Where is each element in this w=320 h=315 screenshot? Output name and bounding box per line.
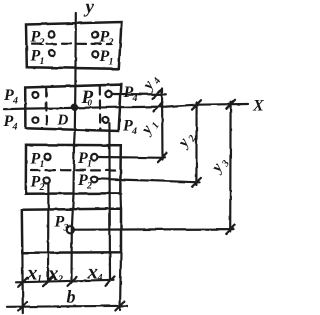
dimension line b (7, 306, 127, 307)
hole P3 (67, 226, 74, 233)
svg-text:X: X (252, 98, 264, 115)
hole P1 lower-left (45, 154, 51, 160)
hole P2 top-right (92, 32, 98, 38)
tick y4 top (153, 90, 162, 99)
extension line right column x4 (108, 123, 111, 281)
svg-text:4: 4 (12, 96, 18, 107)
hole P1 mid-right (92, 51, 98, 57)
x-axis (4, 104, 248, 109)
svg-text:2: 2 (86, 181, 92, 192)
top plate rectangle (26, 22, 122, 69)
svg-text:4: 4 (131, 126, 137, 137)
tick y2 bottom (192, 178, 201, 187)
label y1 rotated (138, 116, 162, 139)
hole P2 top-left (49, 32, 55, 38)
label y4 rotated (139, 72, 163, 95)
svg-text:1: 1 (37, 274, 42, 285)
hole P1 mid-left (49, 50, 55, 56)
middle plate dashed vertical left (45, 89, 47, 128)
hole P4 row1 left (32, 92, 38, 98)
tick x-dim 3 (68, 277, 77, 286)
svg-text:4: 4 (132, 93, 138, 104)
svg-text:2: 2 (57, 274, 63, 285)
svg-text:1: 1 (109, 57, 114, 68)
svg-text:1: 1 (40, 56, 45, 67)
connector line P4 row1 to y4 dimension (112, 93, 166, 96)
connector line P3 to y3 dimension (74, 228, 233, 231)
svg-text:D: D (57, 113, 69, 129)
tick y3 top (226, 100, 235, 109)
bottom plate rectangle (22, 209, 121, 253)
hole P4 row1 right (105, 91, 111, 97)
tick x-dim 2 (44, 277, 53, 286)
extension line rect right edge to b line (120, 252, 121, 310)
svg-text:4: 4 (12, 122, 18, 133)
extension line left column x1 (47, 184, 50, 282)
svg-text:1: 1 (40, 159, 45, 170)
hole P4 row2 left (32, 117, 38, 123)
svg-text:2: 2 (108, 37, 114, 48)
middle plate dashed vertical right (99, 87, 102, 131)
tick b right (115, 302, 124, 311)
hole P2 lower-left (44, 178, 50, 184)
y-axis (72, 13, 76, 282)
lower plate dashed centerline (31, 169, 115, 172)
hole P2 lower-right (91, 176, 97, 182)
dimension vertical y2 (195, 103, 197, 186)
tick y2 top (192, 100, 201, 109)
svg-text:x: x (87, 260, 99, 284)
svg-text:2: 2 (39, 182, 45, 193)
tick y1 bottom (158, 153, 167, 162)
svg-text:b: b (67, 287, 76, 307)
origin point D dot (72, 105, 77, 110)
dimension vertical y3 (229, 102, 232, 231)
svg-text:3: 3 (63, 223, 69, 234)
middle plate rectangle (25, 85, 121, 131)
svg-text:2: 2 (39, 37, 45, 48)
tick y4-y1 on x-axis (154, 103, 163, 112)
extension line rect left edge to b line (21, 253, 24, 313)
dimension vertical y4-y1 (161, 89, 164, 160)
svg-text:x: x (47, 261, 59, 285)
top plate dashed centerline (32, 42, 111, 45)
connector line P1 right to y1 dimension (98, 156, 165, 159)
hole P1 lower-right (91, 154, 97, 160)
connector line P2 right to y2 dimension (98, 179, 200, 183)
extension line rect right edge gap (119, 193, 122, 209)
tick x-dim 1 (18, 278, 27, 287)
tick b left (18, 302, 27, 311)
label y3 rotated (208, 154, 232, 177)
svg-text:1: 1 (87, 159, 92, 170)
label y2 rotated (174, 129, 198, 152)
dimension line x1 x2 x4 (16, 280, 114, 283)
lower plate rectangle (26, 145, 121, 194)
svg-text:x: x (26, 261, 38, 285)
tick x-dim 4 (106, 276, 115, 285)
svg-text:4: 4 (97, 273, 103, 284)
svg-text:у: у (84, 0, 95, 18)
svg-text:0: 0 (88, 98, 93, 108)
tick y3 bottom (226, 225, 235, 234)
hole P4 row2 right (103, 117, 109, 123)
